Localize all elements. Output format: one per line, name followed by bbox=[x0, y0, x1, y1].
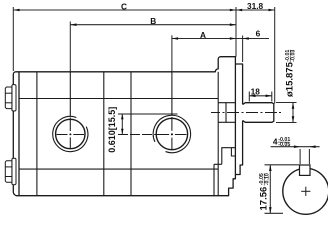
svg-text:4: 4 bbox=[273, 137, 278, 147]
svg-text:-0.03: -0.03 bbox=[290, 50, 296, 62]
svg-text:C: C bbox=[121, 1, 127, 11]
svg-text:18: 18 bbox=[251, 86, 261, 96]
svg-text:6: 6 bbox=[256, 28, 261, 38]
svg-text:17.56: 17.56 bbox=[259, 187, 270, 211]
svg-text:-0.05: -0.05 bbox=[278, 142, 290, 148]
svg-text:B: B bbox=[150, 16, 156, 26]
svg-text:0.610[15.5]: 0.610[15.5] bbox=[107, 107, 117, 153]
svg-text:-0.10: -0.10 bbox=[264, 173, 270, 185]
svg-text:ø15.875: ø15.875 bbox=[285, 61, 296, 97]
svg-text:A: A bbox=[200, 30, 206, 40]
svg-text:31.8: 31.8 bbox=[247, 1, 264, 11]
